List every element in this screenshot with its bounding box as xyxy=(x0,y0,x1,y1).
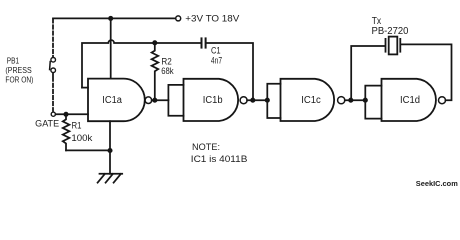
node GATE terminal xyxy=(51,112,55,116)
junction IC1d input bar xyxy=(363,98,368,103)
junction IC1a output / R2 bottom xyxy=(152,98,157,103)
capacitor C1 xyxy=(201,38,203,47)
wire +V drop into IC1a top edge xyxy=(110,18,112,78)
junction node-A / R2 top xyxy=(152,40,157,45)
pushbutton PB1 dashed wire upper xyxy=(52,19,54,56)
pushbutton PB1 bottom contact xyxy=(51,68,56,73)
junction R1 / IC1a bottom / ground xyxy=(107,148,112,153)
pushbutton PB1 dashed wire lower xyxy=(52,78,54,111)
svg-text:PB-2720: PB-2720 xyxy=(372,26,409,37)
pushbutton PB1 lever xyxy=(49,62,52,70)
wire node-A feedback line (y=43) left segment with hop over +V drop xyxy=(82,40,200,88)
junction IC1b output / C1 feedback xyxy=(250,98,255,103)
wire ground drop xyxy=(109,150,111,173)
svg-text:68k: 68k xyxy=(161,65,174,76)
svg-text:IC1c: IC1c xyxy=(301,95,321,106)
svg-text:(PRESS: (PRESS xyxy=(5,65,32,75)
inverter bubble IC1d xyxy=(439,97,446,104)
NAND gate IC1b xyxy=(184,79,239,121)
piezo transducer Tx PB-2720 xyxy=(385,39,387,52)
NAND gate IC1b input tie bar xyxy=(168,85,183,116)
svg-text:GATE: GATE xyxy=(35,118,59,128)
svg-text:SeekIC.com: SeekIC.com xyxy=(416,179,458,188)
svg-text:FOR ON): FOR ON) xyxy=(5,74,33,84)
svg-text:IC1 is 4011B: IC1 is 4011B xyxy=(191,154,248,165)
inverter bubble IC1a xyxy=(145,97,152,104)
NAND gate IC1d xyxy=(382,79,436,121)
NAND gate IC1c input tie bar xyxy=(267,84,280,118)
wire C1 right to IC1b output node xyxy=(207,43,253,100)
wire IC1b output to IC1c input xyxy=(247,99,267,101)
wire piezo right to IC1d output xyxy=(401,44,451,100)
junction GATE wire / R1 xyxy=(63,112,68,117)
svg-text:4n7: 4n7 xyxy=(211,54,222,65)
svg-text:IC1a: IC1a xyxy=(102,95,122,106)
pushbutton PB1 top contact xyxy=(51,58,56,63)
wire top supply rail xyxy=(53,17,175,19)
svg-text:IC1d: IC1d xyxy=(400,95,420,106)
resistor R1 xyxy=(63,114,70,150)
junction IC1c input bar xyxy=(265,98,270,103)
wire R1 bottom to ground node xyxy=(66,149,110,151)
inverter bubble IC1c xyxy=(338,97,345,104)
wire IC1a output to IC1b input xyxy=(152,99,169,101)
wire node-A into IC1a upper input xyxy=(82,87,88,89)
svg-text:+3V TO 18V: +3V TO 18V xyxy=(185,13,239,23)
wire Tx left drop xyxy=(351,46,384,100)
junction top rail to IC1a top input xyxy=(108,16,113,21)
NAND gate IC1d input tie bar xyxy=(365,86,381,119)
NAND gate IC1c xyxy=(281,79,335,121)
wire stub below PB1 xyxy=(52,73,54,76)
ground xyxy=(100,173,123,175)
NAND gate IC1a xyxy=(88,79,145,122)
inverter bubble IC1b xyxy=(240,97,247,104)
wire IC1c output to IC1d input xyxy=(345,99,366,101)
svg-text:IC1b: IC1b xyxy=(203,95,223,106)
resistor R2 xyxy=(152,43,159,100)
wire IC1a bottom edge to ground node xyxy=(109,121,111,150)
node +3V TO 18V terminal xyxy=(176,16,181,21)
svg-text:100k: 100k xyxy=(71,133,92,143)
svg-text:PB1: PB1 xyxy=(7,55,20,65)
wire GATE to IC1a lower input xyxy=(56,113,88,115)
svg-text:R1: R1 xyxy=(72,120,82,130)
svg-text:NOTE:: NOTE: xyxy=(192,141,220,152)
junction IC1c output / Tx left drop xyxy=(348,98,353,103)
